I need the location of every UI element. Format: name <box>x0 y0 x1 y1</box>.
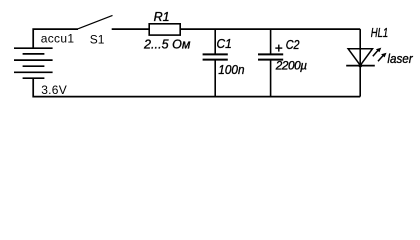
laser diode HL1 triangle <box>348 49 372 66</box>
battery accu1 (3.6V accumulator, 3 cells) <box>14 48 53 78</box>
resistor R1 body <box>149 24 180 35</box>
wire top rail corner down to laser diode HL1 anode <box>359 29 361 49</box>
bottom rail wire (battery negative return) <box>33 78 360 96</box>
svg-text:R1: R1 <box>154 10 170 24</box>
laser diode HL1 emission arrow 2 <box>378 53 387 62</box>
svg-text:100n: 100n <box>218 62 244 77</box>
svg-text:HL1: HL1 <box>371 25 388 40</box>
switch S1 lever (open) <box>78 15 113 28</box>
svg-text:C1: C1 <box>217 36 232 51</box>
laser diode HL1 cathode bar <box>346 65 375 67</box>
junction dot at diode cathode <box>358 64 362 68</box>
svg-text:2200µ: 2200µ <box>275 58 307 72</box>
C2 polarity plus sign <box>275 45 282 52</box>
svg-text:laser: laser <box>387 51 413 66</box>
svg-text:S1: S1 <box>90 33 105 47</box>
svg-text:2...5 Ом: 2...5 Ом <box>143 37 191 51</box>
capacitor C1 bottom lead <box>214 60 216 96</box>
laser diode HL1 cathode wire to bottom rail <box>359 66 361 97</box>
capacitor C2 bottom lead <box>270 60 272 96</box>
capacitor C1 plates <box>203 54 228 59</box>
svg-text:C2: C2 <box>286 37 300 52</box>
wire resistor R1 to laser diode branch (top rail) <box>180 28 360 30</box>
capacitor C1 top lead <box>214 29 216 54</box>
wire switch right contact to resistor R1 <box>112 28 149 30</box>
laser diode HL1 emission arrow 1 <box>373 48 382 57</box>
svg-text:accu1: accu1 <box>41 31 75 45</box>
capacitor C2 top lead <box>270 29 272 54</box>
capacitor C2 plates <box>258 54 283 59</box>
laser diode HL1 anode wire through symbol <box>359 49 361 66</box>
wire battery positive up and right to switch S1 <box>33 29 78 48</box>
svg-text:3.6V: 3.6V <box>41 83 67 97</box>
